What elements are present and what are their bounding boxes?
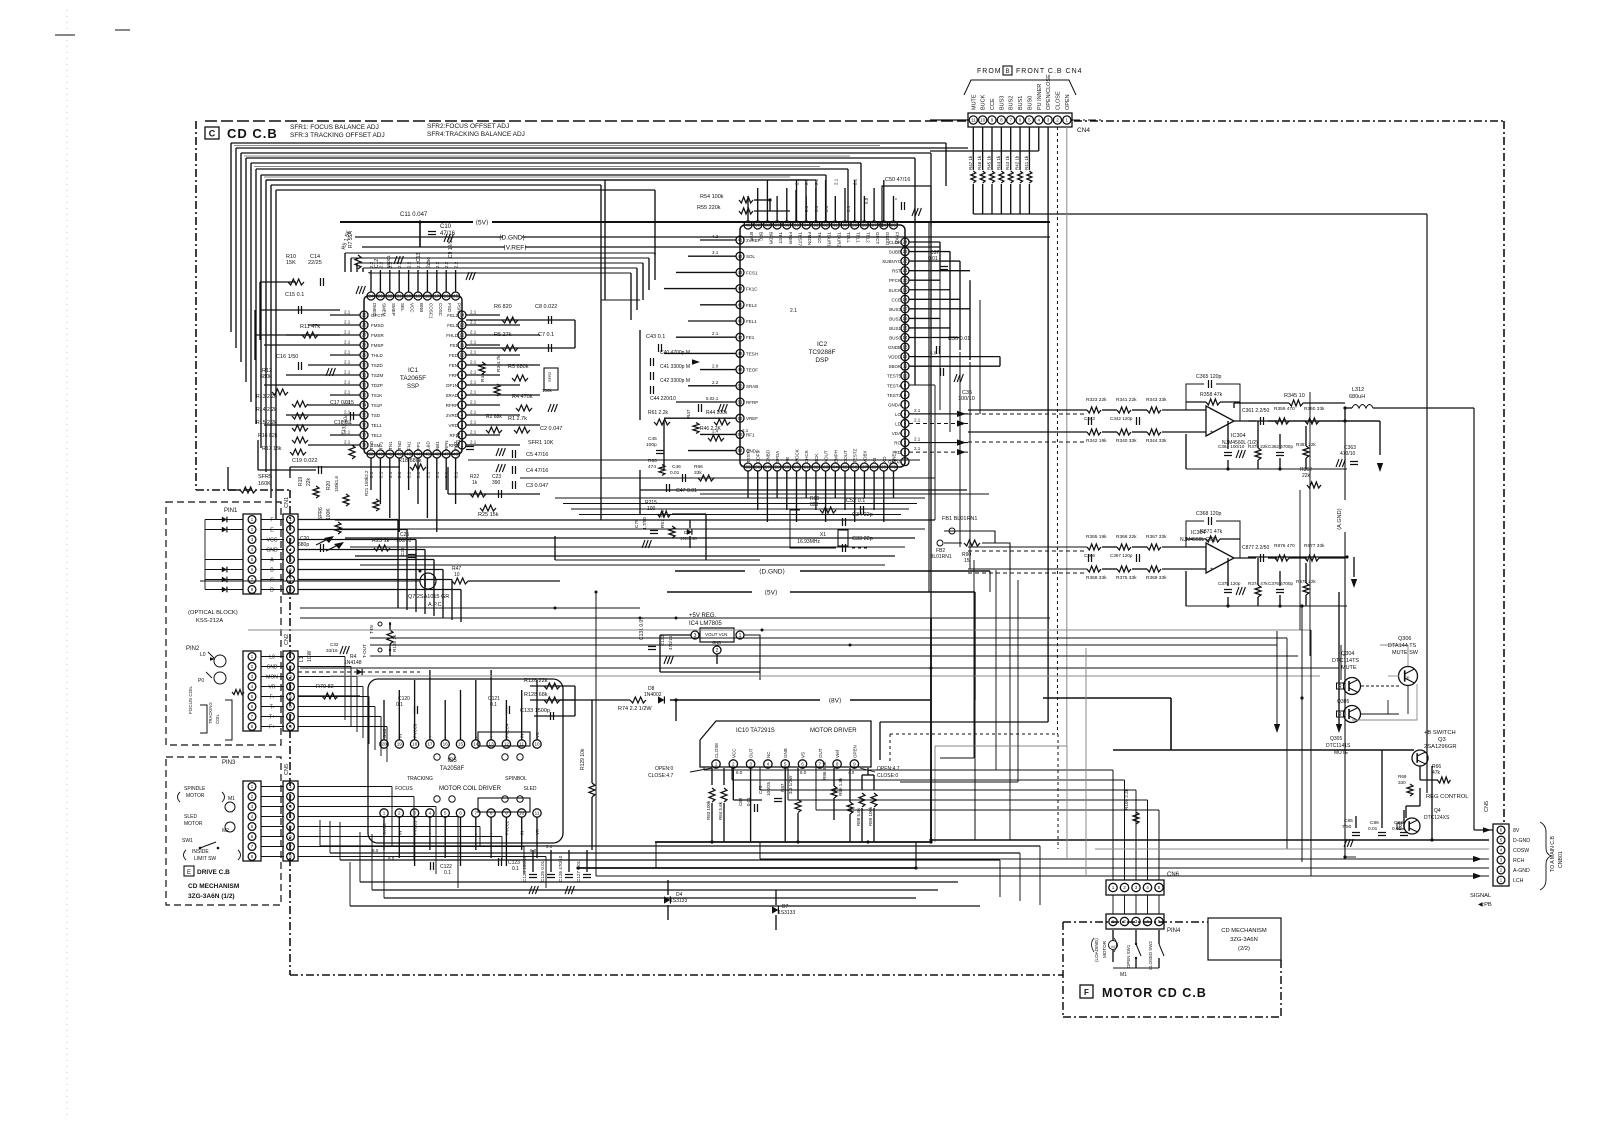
svg-text:FE1: FE1 xyxy=(450,343,459,348)
svg-text:B: B xyxy=(1005,69,1009,75)
svg-text:TA2065F: TA2065F xyxy=(400,375,426,382)
svg-text:R43 1k: R43 1k xyxy=(1005,155,1010,170)
svg-text:Q304: Q304 xyxy=(1341,651,1354,657)
svg-text:FCS1: FCS1 xyxy=(746,270,758,275)
svg-text:TEST5: TEST5 xyxy=(887,374,902,379)
svg-text:C69: C69 xyxy=(738,797,743,806)
svg-text:2.1: 2.1 xyxy=(804,178,809,185)
svg-text:2VREF: 2VREF xyxy=(746,238,761,243)
svg-text:T-: T- xyxy=(270,705,275,711)
svg-text:22/25: 22/25 xyxy=(308,260,322,266)
svg-text:C376 4700p: C376 4700p xyxy=(1268,581,1293,586)
svg-text:VCC: VCC xyxy=(410,303,415,313)
svg-text:6.0: 6.0 xyxy=(800,770,807,775)
svg-text:37: 37 xyxy=(362,433,367,438)
svg-text:100p: 100p xyxy=(646,442,657,448)
svg-text:3.1: 3.1 xyxy=(712,250,719,255)
svg-text:C7 0.1: C7 0.1 xyxy=(538,332,554,338)
svg-text:L0: L0 xyxy=(269,655,275,661)
svg-text:RFRP: RFRP xyxy=(446,403,458,408)
svg-text:20: 20 xyxy=(381,742,387,747)
svg-text:100/10: 100/10 xyxy=(958,396,975,402)
svg-text:CHCK: CHCK xyxy=(804,450,809,463)
svg-text:22k: 22k xyxy=(1302,473,1311,479)
svg-text:SFR:3 TRACKING OFFSET ADJ: SFR:3 TRACKING OFFSET ADJ xyxy=(290,132,385,139)
svg-text:0.01: 0.01 xyxy=(1368,826,1378,832)
svg-text:PIN2: PIN2 xyxy=(186,646,200,652)
svg-text:49: 49 xyxy=(738,367,743,372)
svg-text:BUS3: BUS3 xyxy=(889,307,901,312)
svg-text:MUTE: MUTE xyxy=(1341,665,1357,671)
svg-text:R47 1k: R47 1k xyxy=(968,155,973,170)
svg-text:0.1: 0.1 xyxy=(490,702,497,708)
svg-text:8.0: 8.0 xyxy=(372,848,379,853)
svg-text:C33 22p: C33 22p xyxy=(852,536,873,542)
svg-text:C362 4700p: C362 4700p xyxy=(1268,444,1293,449)
svg-text:SPDA: SPDA xyxy=(775,451,780,463)
svg-text:GND: GND xyxy=(266,665,278,671)
svg-text:MOTOR DRIVER: MOTOR DRIVER xyxy=(810,728,857,734)
svg-text:VRD: VRD xyxy=(448,423,458,428)
svg-text:TSD: TSD xyxy=(371,413,381,418)
svg-text:5.0: 5.0 xyxy=(930,351,937,356)
svg-text:C365 120p: C365 120p xyxy=(1196,374,1221,380)
svg-text:C3 0.047: C3 0.047 xyxy=(526,483,548,489)
svg-text:R87: R87 xyxy=(780,783,785,792)
svg-text:COSC: COSC xyxy=(438,303,443,317)
svg-text:C361 2.2/50: C361 2.2/50 xyxy=(1242,408,1269,414)
svg-text:10: 10 xyxy=(460,353,465,358)
svg-text:R366 22k: R366 22k xyxy=(1116,534,1137,540)
svg-text:COIL: COIL xyxy=(215,714,220,724)
svg-text:2.1: 2.1 xyxy=(344,350,351,355)
svg-text:⟨5V⟩: ⟨5V⟩ xyxy=(764,588,777,596)
svg-text:35: 35 xyxy=(362,413,367,418)
svg-text:R45 1k: R45 1k xyxy=(987,155,992,170)
svg-text:680uH: 680uH xyxy=(1349,394,1365,400)
svg-text:(2/2): (2/2) xyxy=(1238,946,1250,952)
svg-text:F: F xyxy=(1084,988,1089,997)
svg-text:FMSP: FMSP xyxy=(371,343,384,348)
svg-text:64: 64 xyxy=(833,465,838,470)
svg-text:19: 19 xyxy=(903,287,908,292)
svg-text:39: 39 xyxy=(369,452,374,457)
svg-text:THLD: THLD xyxy=(371,353,384,358)
svg-text:R41 1k: R41 1k xyxy=(1024,155,1029,170)
svg-text:BUS1: BUS1 xyxy=(889,326,901,331)
svg-text:33: 33 xyxy=(813,223,818,228)
svg-text:R4 470k: R4 470k xyxy=(512,394,533,400)
svg-text:C8 0.022: C8 0.022 xyxy=(535,304,557,310)
svg-text:11: 11 xyxy=(535,811,540,816)
svg-text:29: 29 xyxy=(362,353,367,358)
svg-text:16: 16 xyxy=(443,742,449,747)
svg-text:TEL1: TEL1 xyxy=(856,232,861,243)
svg-text:47/16: 47/16 xyxy=(440,231,456,237)
svg-text:27: 27 xyxy=(872,223,877,228)
svg-text:2.1: 2.1 xyxy=(914,446,921,451)
svg-text:65: 65 xyxy=(843,465,848,470)
svg-text:60: 60 xyxy=(794,465,799,470)
svg-text:38: 38 xyxy=(765,223,770,228)
svg-text:6: 6 xyxy=(459,811,462,816)
svg-text:13: 13 xyxy=(903,345,908,350)
svg-text:36: 36 xyxy=(784,223,789,228)
svg-text:L1: L1 xyxy=(299,656,305,662)
svg-text:MON: MON xyxy=(266,675,278,681)
svg-text:R66: R66 xyxy=(694,464,703,470)
svg-text:24: 24 xyxy=(369,294,374,299)
svg-text:SFR2:FOCUS OFFSET ADJ: SFR2:FOCUS OFFSET ADJ xyxy=(427,123,509,130)
svg-text:18: 18 xyxy=(425,294,430,299)
svg-text:15: 15 xyxy=(903,326,908,331)
svg-text:COSW: COSW xyxy=(1513,848,1529,854)
svg-text:C9 10/50: C9 10/50 xyxy=(448,237,454,258)
svg-text:7: 7 xyxy=(475,811,478,816)
svg-text:R876 470: R876 470 xyxy=(1274,543,1295,549)
svg-text:2.1: 2.1 xyxy=(416,471,421,478)
svg-text:30: 30 xyxy=(843,223,848,228)
svg-text:R2 68k: R2 68k xyxy=(486,414,502,420)
svg-text:IC1: IC1 xyxy=(408,367,419,374)
svg-text:11: 11 xyxy=(971,118,976,123)
svg-text:0.1: 0.1 xyxy=(396,702,403,708)
svg-text:TDUR1: TDUR1 xyxy=(827,232,832,247)
svg-text:C12: C12 xyxy=(374,259,380,268)
svg-text:0.01: 0.01 xyxy=(670,470,680,476)
svg-text:C42 3300p M: C42 3300p M xyxy=(660,378,690,384)
svg-text:68001: 68001 xyxy=(386,255,391,268)
svg-text:MOTOR: MOTOR xyxy=(1102,940,1107,958)
svg-text:22: 22 xyxy=(387,294,392,299)
svg-text:TEL2: TEL2 xyxy=(371,433,382,438)
svg-text:52: 52 xyxy=(738,416,743,421)
svg-text:LIMIT SW: LIMIT SW xyxy=(194,856,216,862)
svg-text:R5 27k: R5 27k xyxy=(494,332,512,338)
svg-text:2.1: 2.1 xyxy=(435,471,440,478)
svg-text:MOTOR COIL DRIVER: MOTOR COIL DRIVER xyxy=(439,786,502,792)
svg-text:C40 4700p M: C40 4700p M xyxy=(660,350,690,356)
svg-text:COSC1: COSC1 xyxy=(428,303,433,319)
svg-text:19: 19 xyxy=(397,742,403,747)
svg-text:-: - xyxy=(1210,544,1212,550)
svg-text:NJM4560L (2/2): NJM4560L (2/2) xyxy=(1180,537,1216,543)
svg-text:IC304: IC304 xyxy=(1231,433,1246,439)
svg-text:33k: 33k xyxy=(694,470,702,476)
svg-text:47: 47 xyxy=(444,452,449,457)
svg-text:10: 10 xyxy=(534,742,540,747)
svg-text:C367 120p: C367 120p xyxy=(1110,553,1133,558)
svg-text:29: 29 xyxy=(852,223,857,228)
svg-text:3ZG-3A6N: 3ZG-3A6N xyxy=(1230,937,1258,943)
svg-text:TA2058F: TA2058F xyxy=(440,766,465,772)
svg-text:VCC: VCC xyxy=(267,538,278,544)
svg-text:TP1: TP1 xyxy=(378,441,383,450)
svg-text:◀:PB: ◀:PB xyxy=(1478,902,1492,908)
svg-text:Q306: Q306 xyxy=(1398,636,1411,642)
svg-text:70: 70 xyxy=(891,465,896,470)
svg-text:4: 4 xyxy=(429,811,432,816)
svg-text:15: 15 xyxy=(453,294,458,299)
svg-text:R18 680k: R18 680k xyxy=(398,458,422,464)
svg-text:FEL2: FEL2 xyxy=(447,313,458,318)
svg-text:FE1: FE1 xyxy=(746,335,755,340)
svg-text:SLED: SLED xyxy=(184,814,197,820)
svg-text:54: 54 xyxy=(738,448,743,453)
svg-text:39: 39 xyxy=(755,223,760,228)
svg-text:TESH: TESH xyxy=(746,351,758,356)
svg-text:CN1: CN1 xyxy=(284,497,290,508)
svg-text:VS: VS xyxy=(801,752,806,758)
svg-text:20: 20 xyxy=(406,294,411,299)
svg-text:680k: 680k xyxy=(260,374,272,380)
svg-text:R19: R19 xyxy=(298,477,304,486)
svg-text:5: 5 xyxy=(784,762,787,767)
svg-text:C131 0.01: C131 0.01 xyxy=(639,617,645,640)
svg-text:C11 0.047: C11 0.047 xyxy=(400,212,428,218)
svg-text:18: 18 xyxy=(412,742,418,747)
svg-text:2: 2 xyxy=(716,648,719,654)
svg-text:59: 59 xyxy=(784,465,789,470)
svg-text:R109 2.2k: R109 2.2k xyxy=(1124,788,1129,810)
svg-text:C36 0.01: C36 0.01 xyxy=(948,336,970,342)
svg-text:VOBX: VOBX xyxy=(862,450,867,463)
svg-text:2.1: 2.1 xyxy=(833,178,838,185)
svg-text:2.1: 2.1 xyxy=(397,471,402,478)
svg-text:CCE: CCE xyxy=(990,98,996,110)
svg-text:33: 33 xyxy=(362,393,367,398)
svg-text:R341 22k: R341 22k xyxy=(1116,397,1137,403)
svg-text:2.1: 2.1 xyxy=(853,178,858,185)
svg-text:D: D xyxy=(270,588,274,594)
svg-text:15: 15 xyxy=(458,742,464,747)
svg-text:1: 1 xyxy=(383,811,386,816)
svg-text:CLOSED SW2: CLOSED SW2 xyxy=(1148,941,1153,970)
svg-text:PFCK: PFCK xyxy=(889,278,901,283)
svg-text:SEL: SEL xyxy=(400,303,405,312)
svg-text:2.2: 2.2 xyxy=(444,261,449,268)
svg-text:46: 46 xyxy=(738,319,743,324)
svg-text:TDUR2: TDUR2 xyxy=(836,232,841,247)
svg-text:4.2: 4.2 xyxy=(712,234,719,239)
svg-text:TC9288F: TC9288F xyxy=(808,349,835,356)
svg-text:2.1: 2.1 xyxy=(344,410,351,415)
svg-text:25: 25 xyxy=(362,313,367,318)
svg-text:40: 40 xyxy=(378,452,383,457)
svg-text:RPN: RPN xyxy=(444,440,449,450)
svg-text:1/50: 1/50 xyxy=(426,257,431,266)
svg-text:⟨V.REF⟩: ⟨V.REF⟩ xyxy=(503,243,527,251)
svg-text:CLOSE: CLOSE xyxy=(714,743,719,758)
svg-text:FRONT C.B CN4: FRONT C.B CN4 xyxy=(1016,68,1083,75)
svg-text:Q305: Q305 xyxy=(1330,736,1342,742)
svg-text:IC304: IC304 xyxy=(1191,530,1206,536)
svg-text:F+: F+ xyxy=(269,725,275,731)
svg-text:2.1: 2.1 xyxy=(344,380,351,385)
svg-text:2.1: 2.1 xyxy=(369,471,374,478)
svg-text:CD MECHANISM: CD MECHANISM xyxy=(188,883,239,890)
svg-text:P0: P0 xyxy=(198,678,204,684)
svg-text:2: 2 xyxy=(732,762,735,767)
svg-text:C50 47/16: C50 47/16 xyxy=(885,177,910,183)
svg-text:C45: C45 xyxy=(648,436,657,442)
svg-text:TEST4: TEST4 xyxy=(887,383,902,388)
svg-text:3: 3 xyxy=(1135,919,1138,924)
svg-text:FSD: FSD xyxy=(447,303,452,313)
svg-text:SRAB: SRAB xyxy=(746,384,758,389)
svg-text:C13: C13 xyxy=(416,253,422,262)
svg-text:2.1: 2.1 xyxy=(914,417,921,422)
svg-text:OPEN:0: OPEN:0 xyxy=(655,766,674,772)
svg-text:R6 820: R6 820 xyxy=(494,304,512,310)
svg-text:C342 120p: C342 120p xyxy=(1110,416,1133,421)
svg-text:47: 47 xyxy=(738,335,743,340)
svg-text:R47: R47 xyxy=(686,409,691,418)
svg-text:TEL1: TEL1 xyxy=(371,423,382,428)
svg-text:A.P.C: A.P.C xyxy=(428,602,442,608)
svg-text:FOCUS COIL: FOCUS COIL xyxy=(188,685,193,714)
svg-text:SPINDLE: SPINDLE xyxy=(184,786,206,792)
svg-text:LD: LD xyxy=(895,421,902,426)
svg-text:BUS1: BUS1 xyxy=(1018,96,1024,110)
svg-text:14: 14 xyxy=(460,313,465,318)
svg-text:1: 1 xyxy=(1112,885,1115,890)
svg-text:21: 21 xyxy=(903,268,908,273)
svg-text:C4 47/16: C4 47/16 xyxy=(526,468,548,474)
svg-text:SFR4:TRACKING BALANCE ADJ: SFR4:TRACKING BALANCE ADJ xyxy=(427,131,525,138)
svg-text:2.1: 2.1 xyxy=(425,471,430,478)
svg-text:C41 3300p M: C41 3300p M xyxy=(660,364,690,370)
svg-text:36: 36 xyxy=(362,423,367,428)
svg-text:2VRD: 2VRD xyxy=(446,413,459,418)
svg-text:C17 0.015: C17 0.015 xyxy=(330,400,354,406)
svg-text:TSZM: TSZM xyxy=(371,373,383,378)
svg-text:R41: R41 xyxy=(480,373,486,382)
svg-text:15: 15 xyxy=(964,558,970,564)
svg-text:2.1: 2.1 xyxy=(470,440,477,445)
svg-text:2SA1296GR: 2SA1296GR xyxy=(1424,744,1457,750)
svg-text:4: 4 xyxy=(767,762,770,767)
svg-text:CD C.B: CD C.B xyxy=(227,126,278,141)
svg-text:FB1 BL01RN1: FB1 BL01RN1 xyxy=(942,516,977,522)
svg-text:3.3 1/2W: 3.3 1/2W xyxy=(788,775,793,794)
svg-text:48: 48 xyxy=(738,351,743,356)
svg-text:PIN1: PIN1 xyxy=(224,508,238,514)
svg-text:+B SWITCH: +B SWITCH xyxy=(1424,730,1456,736)
svg-text:DSP: DSP xyxy=(815,357,828,364)
svg-text:T-OUT: T-OUT xyxy=(362,644,367,658)
svg-text:INSIDE: INSIDE xyxy=(192,849,209,855)
svg-text:FNER: FNER xyxy=(788,232,793,245)
svg-text:2.1: 2.1 xyxy=(470,410,477,415)
svg-text:SRAD: SRAD xyxy=(445,393,458,398)
svg-text:TEL2: TEL2 xyxy=(865,232,870,243)
svg-text:CE: CE xyxy=(1404,675,1410,680)
svg-text:34: 34 xyxy=(804,223,809,228)
svg-text:BUS2: BUS2 xyxy=(889,316,901,321)
svg-text:RCH: RCH xyxy=(1513,858,1524,864)
svg-text:R15 2.2k: R15 2.2k xyxy=(256,420,277,426)
svg-text:1N4148: 1N4148 xyxy=(680,536,697,542)
svg-text:AOUT: AOUT xyxy=(824,450,829,463)
svg-text:35: 35 xyxy=(794,223,799,228)
svg-text:R70 82: R70 82 xyxy=(316,684,334,690)
svg-text:R375 33k: R375 33k xyxy=(1116,575,1137,581)
svg-text:390: 390 xyxy=(492,480,501,486)
svg-text:R3 4.7k: R3 4.7k xyxy=(496,355,502,372)
svg-text:28: 28 xyxy=(362,343,367,348)
svg-text:GFCT: GFCT xyxy=(875,232,880,244)
svg-text:C86: C86 xyxy=(1370,820,1379,826)
svg-text:C132: C132 xyxy=(660,635,665,646)
svg-text:TPD: TPD xyxy=(369,440,374,450)
svg-text:3ZG-3A6N (1/2): 3ZG-3A6N (1/2) xyxy=(188,893,235,900)
svg-text:T+: T+ xyxy=(269,715,275,721)
svg-text:2: 2 xyxy=(1123,885,1126,890)
svg-text:2.1: 2.1 xyxy=(712,331,719,336)
svg-text:2.1: 2.1 xyxy=(814,178,819,185)
svg-text:2.1: 2.1 xyxy=(344,320,351,325)
svg-text:FEL1: FEL1 xyxy=(746,319,757,324)
svg-text:1S3133: 1S3133 xyxy=(778,910,795,916)
svg-text:C19 0.022: C19 0.022 xyxy=(292,458,317,464)
svg-text:CNB01: CNB01 xyxy=(1558,851,1564,868)
svg-text:R84 5.6k: R84 5.6k xyxy=(718,801,723,820)
svg-text:KSS-212A: KSS-212A xyxy=(196,618,223,624)
svg-text:2.1: 2.1 xyxy=(344,330,351,335)
svg-text:22k: 22k xyxy=(306,477,312,486)
svg-text:17: 17 xyxy=(427,742,433,747)
svg-text:61: 61 xyxy=(804,465,809,470)
svg-text:42: 42 xyxy=(738,254,743,259)
svg-text:F-: F- xyxy=(270,695,275,701)
svg-text:SW1: SW1 xyxy=(182,838,193,844)
svg-text:DRIVE C.B: DRIVE C.B xyxy=(197,869,230,876)
svg-text:L312: L312 xyxy=(1352,387,1364,393)
svg-text:18: 18 xyxy=(903,297,908,302)
svg-text:2.1: 2.1 xyxy=(344,440,351,445)
svg-text:SFR6: SFR6 xyxy=(318,507,324,520)
svg-text:TK1C: TK1C xyxy=(817,232,822,244)
svg-text:CN6: CN6 xyxy=(1167,872,1180,878)
svg-text:16: 16 xyxy=(444,294,449,299)
svg-text:R61 2.2k: R61 2.2k xyxy=(648,410,669,416)
svg-text:FEL1: FEL1 xyxy=(447,323,458,328)
svg-text:XO: XO xyxy=(882,456,887,463)
svg-text:OPEN: OPEN xyxy=(1065,94,1071,110)
svg-text:R345 10: R345 10 xyxy=(1284,393,1305,399)
svg-text:R5 680k: R5 680k xyxy=(508,364,529,370)
svg-text:27: 27 xyxy=(362,333,367,338)
svg-text:CN5: CN5 xyxy=(1484,801,1490,812)
svg-text:43: 43 xyxy=(406,452,411,457)
svg-text:L0: L0 xyxy=(200,652,206,658)
svg-text:FHLD: FHLD xyxy=(446,333,459,338)
svg-text:2.1: 2.1 xyxy=(344,310,351,315)
svg-text:TEOF: TEOF xyxy=(746,368,758,373)
svg-text:IC10 TA7291S: IC10 TA7291S xyxy=(736,728,775,734)
svg-text:Q4: Q4 xyxy=(1434,808,1441,814)
svg-text:SFR1: FOCUS BALANCE ADJ: SFR1: FOCUS BALANCE ADJ xyxy=(290,124,379,131)
svg-text:5: 5 xyxy=(444,811,447,816)
svg-text:TESTX: TESTX xyxy=(746,448,751,463)
svg-text:A: A xyxy=(270,558,274,564)
svg-text:TO A MAIN C.B: TO A MAIN C.B xyxy=(1550,836,1556,872)
svg-text:DTC114TS: DTC114TS xyxy=(1332,658,1359,664)
svg-text:19: 19 xyxy=(416,294,421,299)
svg-text:GND: GND xyxy=(266,548,278,554)
svg-text:6.0: 6.0 xyxy=(736,770,743,775)
